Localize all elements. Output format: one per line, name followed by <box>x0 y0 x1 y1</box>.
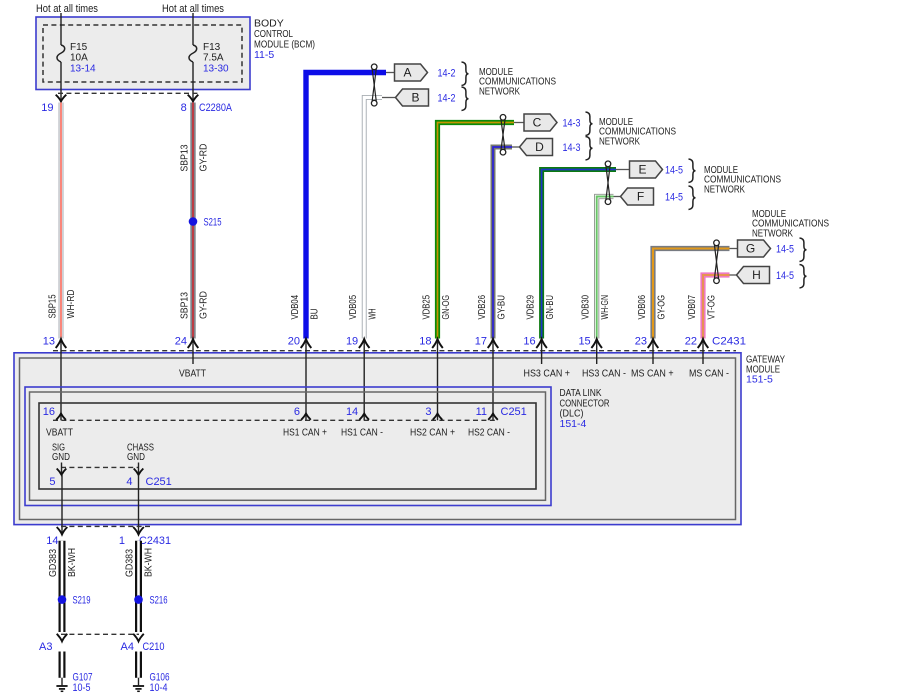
svg-text:14-3: 14-3 <box>563 118 581 130</box>
wire VDB26 GY-BU wire (HS2 CAN -) <box>493 147 512 339</box>
connector C2431 dashed line (below gateway) <box>61 525 150 527</box>
svg-text:Hot at all times: Hot at all times <box>36 3 98 15</box>
svg-text:S216: S216 <box>150 595 168 607</box>
svg-text:23: 23 <box>635 336 647 348</box>
wire inside gateway at x=437.5 to DLC <box>437 353 439 421</box>
svg-text:17: 17 <box>475 336 487 348</box>
svg-text:14-2: 14-2 <box>438 93 456 105</box>
svg-text:C251: C251 <box>146 476 172 488</box>
svg-text:14: 14 <box>346 406 358 418</box>
DLC pin 6 arrow <box>301 414 311 420</box>
svg-text:HS3 CAN -: HS3 CAN - <box>582 368 626 379</box>
svg-text:151-4: 151-4 <box>560 418 587 430</box>
MS CAN - stub (pin 22) <box>702 353 704 365</box>
svg-text:11-5: 11-5 <box>254 49 274 61</box>
svg-text:14-3: 14-3 <box>563 142 581 154</box>
BCM power feed wire (left, into fuse F15) <box>60 13 62 45</box>
pin A3 arrow (down) <box>57 634 68 642</box>
gateway pin 15 arrow <box>596 339 598 353</box>
VBATT stub (pin 24) <box>192 353 194 365</box>
svg-text:SBP15: SBP15 <box>48 294 59 318</box>
svg-text:BK-WH: BK-WH <box>144 548 155 577</box>
svg-text:S215: S215 <box>204 217 222 229</box>
svg-text:VDB06: VDB06 <box>637 295 648 320</box>
svg-text:6: 6 <box>294 406 300 418</box>
svg-text:GND: GND <box>127 452 145 463</box>
svg-text:BU: BU <box>310 309 321 320</box>
svg-text:SBP13: SBP13 <box>180 144 191 171</box>
svg-text:NETWORK: NETWORK <box>479 85 520 97</box>
gateway pin 19 arrow <box>363 339 365 353</box>
svg-text:VDB05: VDB05 <box>348 295 359 320</box>
svg-text:A3: A3 <box>39 641 52 653</box>
wire GD383 BK-WH (right, to S216) <box>135 541 142 632</box>
connector C210 dashed line (A3/A4) <box>61 633 139 635</box>
svg-text:WH: WH <box>368 309 379 320</box>
wire below fuse F15 to pin 19 <box>60 62 62 101</box>
gateway pin 13 arrow <box>60 339 62 353</box>
ground G107 <box>61 678 63 686</box>
svg-text:10A: 10A <box>70 53 88 64</box>
twisted pair symbol G/H <box>714 244 718 280</box>
svg-text:19: 19 <box>346 336 358 348</box>
svg-text:C2431: C2431 <box>139 535 171 547</box>
svg-text:VDB26: VDB26 <box>477 295 488 320</box>
svg-text:13: 13 <box>43 336 55 348</box>
pin 14 arrow (down) <box>57 527 68 535</box>
HS3 CAN + stub (pin 16) <box>541 353 543 365</box>
wire inside gateway at x=493 to DLC <box>492 353 494 421</box>
gateway pin 18 arrow <box>437 339 439 353</box>
DLC pin 5 arrow (down) <box>61 463 63 475</box>
wire SBP15 WH-RD (pin 19 to gateway pin 13) <box>59 103 64 339</box>
svg-text:24: 24 <box>175 336 187 348</box>
gateway pin 22 arrow <box>702 339 704 353</box>
pin 19 arrow (down) <box>56 95 67 102</box>
svg-text:14-5: 14-5 <box>665 165 683 177</box>
wire SBP13 GY-RD (pin 8 to gateway pin 24) <box>190 103 195 339</box>
svg-text:8: 8 <box>181 102 187 114</box>
svg-text:NETWORK: NETWORK <box>599 135 640 147</box>
wire VDB04 BU wire (HS1 CAN +) <box>306 73 386 339</box>
svg-text:4: 4 <box>126 476 132 488</box>
svg-text:S219: S219 <box>73 595 91 607</box>
svg-text:F13: F13 <box>203 42 221 53</box>
svg-text:14-5: 14-5 <box>776 244 794 256</box>
off-page connector B, 14-2 <box>382 97 396 99</box>
wire VDB05 WH wire (HS1 CAN -) <box>364 98 382 339</box>
gateway pin 24 arrow <box>192 339 194 353</box>
wire GD383 BK-WH (left, to S219) <box>59 541 66 632</box>
ground G106 <box>138 678 140 686</box>
svg-text:VDB07: VDB07 <box>687 295 698 320</box>
svg-text:VT-OG: VT-OG <box>707 295 718 320</box>
connector C2280A dashed line at BCM bottom <box>58 92 199 94</box>
svg-text:1: 1 <box>119 535 125 547</box>
body control module BCM box <box>36 17 250 90</box>
svg-text:H: H <box>752 268 761 282</box>
wire inside gateway at x=61 to DLC <box>60 353 62 421</box>
data link connector DLC box <box>25 387 551 506</box>
svg-text:20: 20 <box>288 336 300 348</box>
svg-text:HS3 CAN +: HS3 CAN + <box>524 368 571 379</box>
svg-text:HS2 CAN +: HS2 CAN + <box>410 428 455 439</box>
svg-text:3: 3 <box>425 406 431 418</box>
fuse F15 10A 13-14 <box>57 45 65 62</box>
svg-text:13-14: 13-14 <box>70 64 96 75</box>
svg-text:19: 19 <box>41 102 53 114</box>
wire to ground G107 <box>59 652 66 678</box>
wire VDB06 GY-OG wire (MS CAN +) <box>653 249 730 339</box>
splice S219 <box>58 595 67 604</box>
svg-text:C210: C210 <box>143 641 165 653</box>
svg-text:22: 22 <box>685 336 697 348</box>
svg-text:C: C <box>533 116 542 130</box>
svg-text:B: B <box>411 91 419 105</box>
svg-text:14: 14 <box>46 535 58 547</box>
svg-text:G: G <box>746 242 755 256</box>
DLC pin 16 arrow <box>56 414 66 420</box>
svg-text:5: 5 <box>49 476 55 488</box>
off-page connector H, 14-5 <box>730 274 737 276</box>
gateway pin 17 arrow <box>492 339 494 353</box>
gateway pin 16 arrow <box>541 339 543 353</box>
svg-text:GD383: GD383 <box>125 549 136 577</box>
svg-text:SBP13: SBP13 <box>180 292 191 319</box>
wire SIG GND down to C2431 <box>61 475 63 535</box>
svg-text:14-5: 14-5 <box>776 270 794 282</box>
svg-text:151-5: 151-5 <box>746 374 773 386</box>
DLC pin dashed line C251 <box>53 419 497 421</box>
wire VDB25 GN-OG wire (HS2 CAN +) <box>438 123 515 339</box>
pin 1 arrow (down), connector C2431 <box>133 527 144 535</box>
svg-text:VDB30: VDB30 <box>581 295 592 320</box>
BCM power feed wire (right, into fuse F13) <box>192 13 194 45</box>
svg-text:13-30: 13-30 <box>203 64 229 75</box>
off-page connector C, 14-3 <box>514 122 524 124</box>
svg-text:F15: F15 <box>70 42 88 53</box>
svg-text:GN-BU: GN-BU <box>545 295 556 320</box>
twisted pair symbol E/F <box>606 165 610 201</box>
svg-text:GY-BU: GY-BU <box>497 295 508 320</box>
svg-text:BK-WH: BK-WH <box>67 548 78 577</box>
svg-text:C2431: C2431 <box>712 336 746 348</box>
svg-text:VDB04: VDB04 <box>290 295 301 320</box>
svg-text:15: 15 <box>578 336 590 348</box>
svg-text:A4: A4 <box>121 641 134 653</box>
wire below fuse F13 to pin 8 <box>192 62 194 101</box>
svg-text:NETWORK: NETWORK <box>704 183 745 195</box>
svg-text:GY-OG: GY-OG <box>657 295 668 320</box>
wire to ground G106 <box>135 652 142 678</box>
svg-text:HS1 CAN +: HS1 CAN + <box>283 428 327 439</box>
svg-text:GY-RD: GY-RD <box>199 144 210 172</box>
HS3 CAN - stub (pin 15) <box>596 353 598 365</box>
svg-text:10-4: 10-4 <box>150 682 168 694</box>
svg-text:GND: GND <box>52 452 70 463</box>
svg-text:14-2: 14-2 <box>438 68 456 80</box>
wire inside gateway at x=364.2 to DLC <box>363 353 365 421</box>
svg-text:E: E <box>638 163 646 177</box>
svg-text:7.5A: 7.5A <box>203 53 224 64</box>
fuse F13 7.5A 13-30 <box>189 45 197 62</box>
svg-text:10-5: 10-5 <box>73 682 91 694</box>
pin 8 arrow (down), connector C2280A <box>188 95 199 102</box>
svg-text:GN-OG: GN-OG <box>441 295 452 320</box>
svg-text:VBATT: VBATT <box>46 428 73 439</box>
svg-text:16: 16 <box>43 406 55 418</box>
DLC pin 14 arrow <box>359 414 369 420</box>
svg-text:D: D <box>535 140 544 154</box>
svg-text:A: A <box>403 66 411 80</box>
wire inside gateway at x=306 to DLC <box>305 353 307 421</box>
svg-text:16: 16 <box>523 336 535 348</box>
gateway top connector dashed line <box>53 350 736 352</box>
dashed line between DLC ground pins 5 and 4 (C251) <box>61 466 139 468</box>
wire VDB29 GN-BU wire (HS3 CAN +) <box>542 170 616 339</box>
DLC pin 11 arrow <box>488 414 498 420</box>
twisted pair symbol A/B <box>372 68 376 102</box>
MS CAN + stub (pin 23) <box>652 353 654 365</box>
svg-text:F: F <box>637 190 644 204</box>
svg-text:11: 11 <box>476 406 487 418</box>
svg-text:VDB25: VDB25 <box>422 295 433 320</box>
wire CHASS GND down to C2431 <box>138 475 140 535</box>
off-page connector E, 14-5 <box>616 169 630 171</box>
twisted pair symbol C/D <box>501 118 505 151</box>
svg-text:VDB29: VDB29 <box>526 295 537 320</box>
off-page connector G, 14-5 <box>730 248 738 250</box>
svg-text:WH-RD: WH-RD <box>66 290 77 319</box>
splice S215 <box>189 217 198 226</box>
svg-text:14-5: 14-5 <box>665 192 683 204</box>
off-page connector D, 14-3 <box>512 146 520 148</box>
off-page connector A, 14-2 <box>386 72 395 74</box>
svg-text:GD383: GD383 <box>48 549 59 577</box>
svg-text:18: 18 <box>419 336 431 348</box>
gateway pin 23 arrow <box>652 339 654 353</box>
svg-text:NETWORK: NETWORK <box>752 227 793 239</box>
DLC pin 4 arrow (down), connector C251 <box>138 463 140 475</box>
svg-text:C2280A: C2280A <box>199 102 233 114</box>
svg-text:HS1 CAN -: HS1 CAN - <box>341 428 383 439</box>
splice S216 <box>134 595 143 604</box>
wire VDB07 VT-OG wire (MS CAN -) <box>703 275 730 339</box>
svg-text:MS CAN +: MS CAN + <box>631 368 674 379</box>
pin A4 arrow (down), connector C210 <box>133 634 144 642</box>
off-page connector F, 14-5 <box>614 196 621 198</box>
svg-text:VBATT: VBATT <box>179 368 206 379</box>
gateway pin 20 arrow <box>305 339 307 353</box>
DLC pin 3 arrow <box>433 414 443 420</box>
wire VDB30 WH-GN wire (HS3 CAN -) <box>597 197 614 339</box>
svg-text:C251: C251 <box>501 406 527 418</box>
gateway module box <box>14 353 741 525</box>
svg-text:GY-RD: GY-RD <box>199 291 210 319</box>
svg-text:WH-GN: WH-GN <box>600 295 611 320</box>
svg-text:HS2 CAN -: HS2 CAN - <box>468 428 510 439</box>
svg-text:MS CAN -: MS CAN - <box>689 368 729 379</box>
